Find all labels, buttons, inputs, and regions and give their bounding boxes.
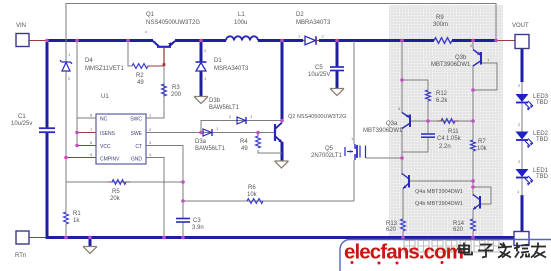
svg-text:NSS40500UW3T2G: NSS40500UW3T2G: [146, 20, 200, 26]
svg-text:R12: R12: [436, 91, 448, 97]
wire: RTN terminal stub: [29, 237, 46, 239]
svg-text:SWE: SWE: [131, 131, 143, 137]
wire: VIN top rail segment 1: [46, 39, 154, 42]
svg-text:elecfans.com: elecfans.com: [344, 241, 463, 264]
resistor R7 10k: [471, 140, 476, 151]
wire: R12 top feed: [402, 80, 428, 90]
terminal VIN: [16, 23, 29, 47]
wire: Q3a emitter column from rail: [401, 41, 403, 113]
wire: IC pin8 stub: [77, 117, 96, 119]
diode D1 MSRA340T3 (freewheel): [196, 48, 208, 81]
resistor R2 49: [132, 64, 148, 69]
LED3: [516, 83, 534, 111]
svg-text:MSRA340T3: MSRA340T3: [214, 66, 249, 72]
svg-text:D4: D4: [85, 58, 93, 64]
resistor R5 20k: [108, 180, 130, 185]
node: bottom rail junctions: [64, 236, 475, 240]
svg-text:20k: 20k: [110, 196, 121, 202]
svg-text:R9: R9: [436, 15, 444, 21]
resistor R13 620: [401, 219, 406, 231]
wire: Q4b base-collector loop: [473, 187, 491, 204]
wire: top rail R9 to feedback node: [452, 39, 497, 42]
resistor R1 1k: [64, 212, 69, 224]
svg-text:Q4b MBT3904DW1: Q4b MBT3904DW1: [415, 201, 463, 207]
capacitor C3 3.9n: [176, 219, 190, 223]
LED2: [516, 122, 534, 148]
wire: VIN terminal stub: [29, 40, 46, 42]
svg-text:Q3a: Q3a: [386, 121, 398, 127]
svg-text:10k: 10k: [247, 192, 258, 198]
resistor R4 49: [256, 133, 261, 149]
svg-text:R2: R2: [136, 73, 144, 79]
wire: left input column (VIN to C1): [46, 39, 49, 128]
wire: R6 from CT node to Q5 source: [183, 200, 354, 202]
wire: D4 cathode down to CMPINV node, R1 column: [65, 71, 67, 212]
svg-text:Q2 NSS40500UW3T2G: Q2 NSS40500UW3T2G: [288, 114, 346, 120]
ground for C5: [330, 89, 344, 96]
transistor Q1 NSS40500UW3T2G (PNP pass): [145, 29, 175, 66]
svg-text:Q4a MBT3904DW1: Q4a MBT3904DW1: [415, 189, 463, 195]
wire: Q3a base / R11 line: [411, 120, 473, 122]
svg-text:RTn: RTn: [15, 253, 26, 259]
resistor R9 300m (current sense): [434, 38, 452, 44]
wire: GND pin to bottom rail: [146, 158, 164, 238]
svg-text:1.05k: 1.05k: [446, 136, 462, 142]
svg-text:VOUT: VOUT: [512, 23, 529, 29]
wire: Q3b base-collector loop: [473, 63, 497, 90]
watermark box border: [340, 240, 551, 271]
diode D3a BAW56LT1: [203, 126, 219, 136]
diode D2 MBRA340T3 (series): [298, 34, 325, 45]
wire: C3 bottom to rail: [182, 222, 184, 237]
diode D3b BAW56LT1: [229, 114, 253, 124]
gray shaded analysis region: [389, 5, 503, 237]
wire: top rail L1 to D2: [258, 39, 303, 42]
wire: top rail after Q1: [175, 39, 226, 42]
terminal RTN: [15, 231, 29, 259]
svg-text:CMPINV: CMPINV: [100, 157, 120, 163]
wire: C4 bottom to sense line: [402, 138, 428, 152]
svg-text:TBD: TBD: [536, 137, 549, 143]
svg-text:MBRA340T3: MBRA340T3: [296, 20, 331, 26]
svg-text:MBT3906DW1: MBT3906DW1: [431, 62, 471, 68]
wire: Q5 source column: [353, 160, 355, 201]
svg-text:GND: GND: [131, 157, 143, 163]
wire: IC pin6 stub: [77, 145, 96, 147]
wire: R2 riser from rail: [128, 42, 132, 66]
resistor R12 6.2k: [426, 90, 431, 101]
wire: Q2 emitter to ground: [281, 142, 284, 161]
mosfet Q5 2N7002LT1: [345, 136, 366, 160]
svg-text:R7: R7: [478, 139, 486, 145]
svg-text:620: 620: [453, 227, 464, 233]
wire: Q1 base column through R3 to SWC: [146, 48, 164, 118]
svg-text:1k: 1k: [73, 218, 80, 224]
svg-text:C4: C4: [437, 136, 445, 142]
node: rail junctions: [45, 39, 498, 43]
transistor Q4a MBT3904DW1: [402, 174, 409, 189]
svg-text:R11: R11: [448, 129, 459, 135]
node: mid-circuit junctions: [64, 78, 475, 203]
resistor R11 1.05k: [437, 119, 459, 124]
wire: Q4a emitter through R13 to rail: [402, 188, 404, 219]
watermark black chinese brand glyphs: [459, 243, 546, 258]
resistor R6 10k: [247, 199, 263, 204]
wire: R4 bottom to Q2 emitter: [258, 150, 282, 153]
wire: CT pin to timing cap C3: [146, 146, 183, 219]
svg-text:2N7002LT1: 2N7002LT1: [311, 153, 343, 159]
wire: C5 branch from rail: [336, 41, 339, 68]
svg-text:10u/25v: 10u/25v: [11, 121, 32, 127]
svg-text:C3: C3: [193, 218, 201, 224]
wire: LED2 to LED1: [521, 141, 523, 170]
svg-text:VCC: VCC: [100, 144, 111, 150]
svg-text:CT: CT: [135, 144, 142, 150]
svg-text:TBD: TBD: [536, 100, 549, 106]
wire: G1 ground stub on bottom rail: [89, 238, 92, 246]
wire: bottom ground rail: [46, 236, 515, 239]
wire: Q3b collector column down through R7: [472, 65, 474, 140]
svg-text:620: 620: [386, 227, 397, 233]
svg-text:D1: D1: [214, 58, 222, 64]
svg-text:2.2n: 2.2n: [439, 144, 451, 150]
wire: SWE line to Q2 base: [146, 132, 275, 134]
svg-text:R6: R6: [248, 185, 256, 191]
wire: VOUT to LED3: [521, 49, 524, 82]
wire: feedback loop from VOUT node over the top: [66, 4, 496, 63]
svg-text:BAW56LT1: BAW56LT1: [195, 146, 226, 152]
wire: D1 branch from rail: [200, 41, 203, 63]
wire: Q4b emitter through R14 to rail: [472, 210, 474, 219]
wire: LED1 to thick return: [517, 178, 522, 196]
svg-text:10u/25V: 10u/25V: [308, 72, 330, 78]
svg-text:R3: R3: [172, 85, 180, 91]
svg-text:100u: 100u: [234, 20, 247, 26]
transistor Q4b MBT3904DW1: [473, 195, 480, 210]
wire: IC pin5 stub: [66, 157, 96, 159]
svg-text:300m: 300m: [433, 22, 448, 28]
wire: VCC/ISENS/NC feed from rail: [76, 41, 78, 146]
resistor R14 620: [471, 219, 476, 231]
wire: R2 to Q1 base junction (red): [148, 65, 164, 67]
capacitor C4 2.2n: [421, 134, 435, 137]
svg-text:Q1: Q1: [146, 12, 155, 18]
svg-text:D2: D2: [296, 12, 304, 18]
terminal VOUT: [512, 23, 529, 49]
wire: IC pin7 stub: [77, 132, 96, 134]
wire: R1 bottom to rail: [65, 224, 67, 237]
wire: LED3 to LED2: [521, 82, 523, 132]
svg-text:6.2k: 6.2k: [436, 98, 448, 104]
wire: C5 to ground: [336, 71, 339, 89]
svg-text:49: 49: [137, 80, 144, 86]
svg-text:L1: L1: [238, 12, 245, 18]
svg-text:NC: NC: [100, 117, 108, 123]
wire: Q4a base line: [410, 180, 473, 182]
wire: left column C1 to bottom rail: [46, 133, 49, 239]
wire: D1 anode to ground: [200, 71, 203, 96]
svg-text:BAW56LT1: BAW56LT1: [209, 105, 240, 111]
svg-text:R1: R1: [73, 211, 81, 217]
capacitor C1 10u/25v (input): [39, 128, 55, 132]
transistor Q2 NSS40500UW3T2G: [275, 123, 282, 143]
wire: switch node down to Q2 collector: [281, 41, 284, 123]
IC U1 controller: [90, 113, 152, 165]
svg-text:3.9n: 3.9n: [192, 225, 204, 231]
zener D4 MMSZ11VET1: [60, 52, 72, 81]
svg-text:R5: R5: [112, 189, 120, 195]
svg-text:TBD: TBD: [536, 174, 549, 180]
svg-text:ISENS: ISENS: [100, 131, 116, 137]
svg-text:Q5: Q5: [325, 146, 334, 152]
wire: riser to D3b branch: [201, 121, 282, 133]
wire: R12 bottom to mirror node: [427, 101, 429, 133]
inductor L1 100u: [226, 36, 258, 40]
ground for Q2 emitter: [275, 161, 289, 168]
svg-text:49: 49: [241, 146, 248, 152]
svg-text:MBT3906DW1: MBT3906DW1: [363, 128, 403, 134]
svg-text:VIN: VIN: [16, 23, 26, 29]
svg-text:U1: U1: [101, 94, 109, 100]
svg-text:10k: 10k: [477, 146, 488, 152]
svg-text:D3b: D3b: [209, 98, 221, 104]
resistor R3 200: [162, 84, 167, 96]
ground symbol on bottom rail: [83, 247, 97, 254]
capacitor C5 10u/25V (output): [330, 67, 344, 71]
transistor Q3a MBT3906DW1: [398, 106, 410, 129]
wire: Q5 gate to current-sense node: [366, 157, 402, 159]
svg-text:C5: C5: [315, 65, 323, 71]
wire: top rail D2 to R9: [319, 39, 434, 42]
wire: VOUT terminal stub: [497, 40, 515, 42]
svg-text:200: 200: [171, 92, 182, 98]
svg-text:Q3b: Q3b: [455, 55, 467, 61]
svg-text:D3a: D3a: [195, 139, 207, 145]
watermark faint chinese text: [404, 241, 499, 253]
svg-text:R4: R4: [240, 139, 248, 145]
svg-text:c: c: [145, 29, 147, 34]
svg-text:MMSZ11VET1: MMSZ11VET1: [85, 66, 125, 72]
wire: Q3b emitter from rail: [472, 41, 474, 49]
terminal LED return box: [514, 232, 529, 246]
watermark elecfans.com: [344, 241, 463, 265]
transistor Q3b MBT3906DW1: [470, 43, 490, 66]
wire: Q3a collector down to Q4a collector: [401, 127, 403, 175]
ground for D1: [194, 97, 208, 104]
svg-text:SWC: SWC: [130, 117, 142, 123]
wire: Q5 drain up to rail: [353, 41, 355, 144]
svg-text:C1: C1: [18, 114, 26, 120]
LED1: [516, 159, 534, 186]
wire: LED1 to return box: [521, 195, 524, 232]
wire: R5 from CMPINV node to CT node: [66, 181, 183, 183]
